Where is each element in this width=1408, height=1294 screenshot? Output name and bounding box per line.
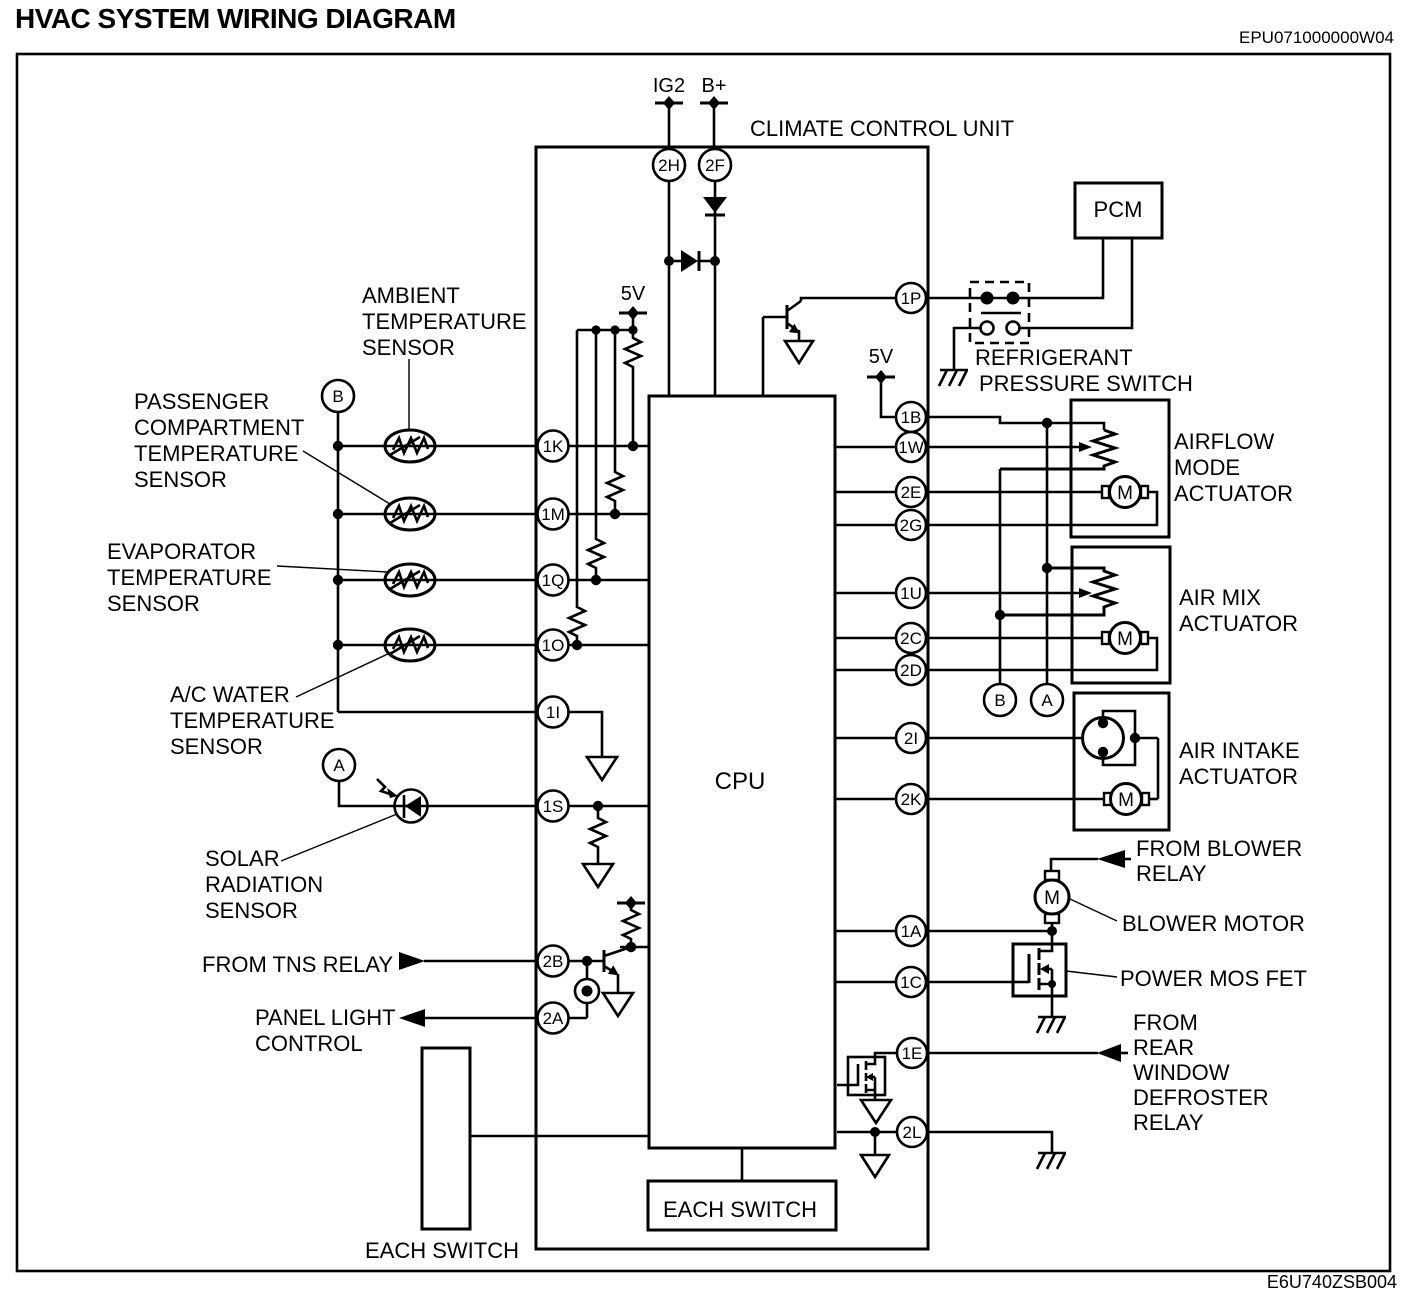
wire B+ to 2F xyxy=(713,103,716,150)
ground (1I return) xyxy=(587,757,617,780)
arrow wiper airflow xyxy=(1079,442,1092,452)
ground (Q1 emitter) xyxy=(785,341,813,363)
connector pin 1M xyxy=(538,499,569,530)
wire 1O row xyxy=(338,644,537,647)
svg-text:TEMPERATURE: TEMPERATURE xyxy=(362,309,527,334)
connector pin 2B xyxy=(538,946,569,977)
svg-text:FROM TNS RELAY: FROM TNS RELAY xyxy=(202,952,393,977)
svg-text:A/C WATER: A/C WATER xyxy=(170,682,290,707)
svg-text:1K: 1K xyxy=(543,437,564,456)
svg-text:RADIATION: RADIATION xyxy=(205,872,323,897)
transistor Q3 power MOS FET xyxy=(1013,944,1066,996)
svg-text:A: A xyxy=(1041,691,1053,710)
lamp panel light indicator xyxy=(568,961,599,1018)
wire left sensor rail xyxy=(337,412,340,712)
svg-text:BLOWER MOTOR: BLOWER MOTOR xyxy=(1122,911,1305,936)
wire 1Q to CPU xyxy=(568,579,649,582)
node bus junction 3 xyxy=(628,325,637,334)
svg-text:REAR: REAR xyxy=(1133,1035,1194,1060)
svg-text:M: M xyxy=(1118,790,1134,811)
node rail junction 1Q xyxy=(333,575,343,585)
diode D2 between IG2 and B+ lines xyxy=(664,250,720,272)
svg-text:2K: 2K xyxy=(901,790,922,809)
wire 1C to MOSFET gate xyxy=(926,981,1013,984)
supply terminal (internal rail) xyxy=(617,896,645,910)
svg-text:PASSENGER: PASSENGER xyxy=(134,389,269,414)
svg-text:A: A xyxy=(333,756,345,775)
motor M1 airflow mode xyxy=(1102,477,1148,508)
callout line evaporator sensor xyxy=(277,566,387,572)
svg-text:EVAPORATOR: EVAPORATOR xyxy=(107,539,256,564)
svg-text:2E: 2E xyxy=(901,483,922,502)
node A-rail top junction xyxy=(1042,418,1052,428)
wire 2D from CPU xyxy=(835,669,896,672)
svg-text:AMBIENT: AMBIENT xyxy=(362,283,460,308)
transistor Q4 rear defroster driver xyxy=(837,1057,885,1100)
callout line solar sensor xyxy=(281,814,397,861)
svg-text:RELAY: RELAY xyxy=(1136,861,1207,886)
PCM module xyxy=(1075,183,1162,238)
wire pressure switch to PCM xyxy=(1013,238,1103,298)
wire CPU to each switch xyxy=(741,1148,744,1181)
resistor R5 on 1S line xyxy=(590,806,606,864)
svg-text:1U: 1U xyxy=(900,584,922,603)
svg-text:1S: 1S xyxy=(543,797,564,816)
wire pressure switch to chassis ground xyxy=(954,328,980,369)
svg-text:E6U740ZSB004: E6U740ZSB004 xyxy=(1267,1272,1397,1292)
svg-text:CONTROL: CONTROL xyxy=(255,1031,363,1056)
thermistor A/C water temperature sensor xyxy=(385,629,435,661)
svg-text:ACTUATOR: ACTUATOR xyxy=(1179,611,1298,636)
wire 1K row xyxy=(338,445,537,448)
label: SOLAR RADIATION SENSOR xyxy=(205,846,323,923)
label: FROM REAR WINDOW DEFROSTER RELAY xyxy=(1133,1010,1269,1135)
svg-text:2H: 2H xyxy=(658,156,680,175)
connector pin 2F xyxy=(699,149,731,181)
wire A to solar sensor xyxy=(339,781,395,806)
connector pin 2G xyxy=(896,510,926,540)
svg-text:SENSOR: SENSOR xyxy=(134,467,227,492)
node A circle (actuator rail A) xyxy=(1031,684,1063,716)
resistor R2 pull-up to 1M xyxy=(607,330,623,519)
chassis ground (2L) xyxy=(1037,1153,1066,1169)
CPU U1 xyxy=(649,396,835,1148)
wire 2E to airflow motor xyxy=(926,491,1102,494)
wire 1B to airflow potentiometer xyxy=(926,417,1104,430)
svg-text:SENSOR: SENSOR xyxy=(362,335,455,360)
each switch block (left) xyxy=(365,1048,519,1263)
label: AMBIENT TEMPERATURE SENSOR xyxy=(362,283,527,360)
svg-text:AIRFLOW: AIRFLOW xyxy=(1174,429,1274,454)
svg-text:1A: 1A xyxy=(901,922,922,941)
svg-text:B+: B+ xyxy=(701,75,726,97)
node 2B junction xyxy=(582,956,592,966)
svg-text:CPU: CPU xyxy=(715,768,766,795)
connector pin 1O xyxy=(538,630,569,661)
connector pin 2K xyxy=(896,784,926,814)
svg-text:MODE: MODE xyxy=(1174,455,1240,480)
connector pin 1A xyxy=(896,916,926,946)
airflow mode actuator box xyxy=(1071,400,1293,537)
arrow to panel light control xyxy=(399,1009,425,1027)
air intake actuator box xyxy=(1074,693,1300,830)
5V supply terminal (right) xyxy=(867,346,896,417)
callout line A/C water sensor xyxy=(296,652,392,697)
wire 1E to rear defroster relay xyxy=(927,1052,1098,1055)
svg-text:REFRIGERANT: REFRIGERANT xyxy=(975,345,1133,370)
callout line blower motor xyxy=(1070,899,1117,921)
wire 2I to intake actuator xyxy=(926,737,1083,740)
ground (1S pull-down) xyxy=(583,864,613,887)
svg-text:PCM: PCM xyxy=(1094,197,1143,222)
connector pin 1C xyxy=(896,967,926,997)
potentiometer airflow mode xyxy=(1000,430,1115,469)
connector pin 2C xyxy=(896,623,926,653)
wire 1Q row xyxy=(338,579,537,582)
wire 2F line down to CPU xyxy=(714,181,717,396)
wire 1W from CPU xyxy=(835,446,896,449)
arrow from blower relay xyxy=(1097,850,1131,868)
wire 2D to air mix motor return xyxy=(926,638,1157,670)
motor blower xyxy=(1035,871,1069,923)
svg-text:EPU071000000W04: EPU071000000W04 xyxy=(1239,28,1394,47)
svg-text:M: M xyxy=(1117,483,1133,504)
svg-text:2G: 2G xyxy=(900,516,923,535)
svg-text:SENSOR: SENSOR xyxy=(107,591,200,616)
svg-text:5V: 5V xyxy=(869,346,894,368)
svg-text:2C: 2C xyxy=(900,629,922,648)
wire 1I to ground xyxy=(568,712,602,757)
svg-text:DEFROSTER: DEFROSTER xyxy=(1133,1085,1269,1110)
svg-text:SENSOR: SENSOR xyxy=(205,898,298,923)
resistor R1 pull-up to 1K xyxy=(625,330,641,451)
wire 2I from CPU xyxy=(835,737,896,740)
wire 2L from CPU xyxy=(837,1127,897,1155)
ground (2L internal) xyxy=(861,1155,889,1177)
connector pin 2I xyxy=(896,723,926,753)
svg-text:CLIMATE CONTROL UNIT: CLIMATE CONTROL UNIT xyxy=(750,116,1014,141)
thermistor evaporator temperature sensor xyxy=(385,564,435,596)
wire 1M to CPU xyxy=(568,513,649,516)
connector pin 1W xyxy=(896,432,926,462)
potentiometer air mix xyxy=(995,563,1115,620)
wire blower relay to motor xyxy=(1051,859,1098,871)
svg-text:ACTUATOR: ACTUATOR xyxy=(1179,764,1298,789)
svg-text:2D: 2D xyxy=(900,661,922,680)
node B (sensor supply rail) xyxy=(322,380,354,412)
node A (solar sensor) xyxy=(323,749,355,781)
svg-text:1W: 1W xyxy=(898,438,924,457)
wire TNS relay to 2B xyxy=(424,960,537,963)
connector pin 1E xyxy=(897,1038,927,1068)
wire solar sensor to 1S xyxy=(427,805,537,808)
svg-text:SENSOR: SENSOR xyxy=(170,734,263,759)
svg-text:2L: 2L xyxy=(903,1123,922,1142)
wire 1U wiper xyxy=(926,592,1080,595)
transistor Q1 (refrigerant pressure signal) xyxy=(763,301,801,396)
label: PANEL LIGHT CONTROL xyxy=(255,1005,396,1056)
vacuum actuator air intake xyxy=(1083,711,1159,799)
svg-text:1O: 1O xyxy=(542,636,565,655)
svg-text:2I: 2I xyxy=(904,729,918,748)
thermistor passenger compartment temperature sensor xyxy=(385,498,435,530)
svg-text:2A: 2A xyxy=(543,1009,564,1028)
svg-text:B: B xyxy=(994,691,1005,710)
wire 2H line down to CPU xyxy=(668,181,671,396)
label: EVAPORATOR TEMPERATURE SENSOR xyxy=(107,539,272,616)
label: REFRIGERANT PRESSURE SWITCH xyxy=(975,345,1193,396)
chassis ground (power MOS FET) xyxy=(1037,1017,1066,1033)
svg-text:5V: 5V xyxy=(621,283,646,305)
wire 1E to Q4 drain xyxy=(875,1053,896,1057)
chassis ground (pressure switch) xyxy=(939,370,968,386)
wire 1I row xyxy=(338,711,537,714)
photodiode solar radiation sensor xyxy=(377,779,428,823)
svg-text:POWER MOS FET: POWER MOS FET xyxy=(1120,966,1307,991)
node rail junction 1O xyxy=(333,640,343,650)
wire each switch to CPU xyxy=(470,1135,649,1138)
wire 1K to CPU xyxy=(568,445,649,448)
wire 2B to transistor base xyxy=(568,960,604,963)
connector pin 2D xyxy=(896,655,926,685)
wire A rail xyxy=(1046,423,1049,684)
connector pin 2E xyxy=(896,477,926,507)
ground (Q4 source) xyxy=(861,1100,891,1123)
connector pin 1B xyxy=(896,402,926,432)
svg-text:FROM: FROM xyxy=(1133,1010,1198,1035)
resistor R4 pull-up to 1O xyxy=(569,330,585,650)
svg-text:2F: 2F xyxy=(705,156,725,175)
wire 1W wiper xyxy=(926,446,1080,449)
node Q2 collector junction xyxy=(626,942,636,952)
wire 2A to panel light control xyxy=(424,1017,537,1020)
motor M3 air intake xyxy=(1104,784,1149,815)
svg-text:M: M xyxy=(1117,629,1133,650)
node rail junction 1M xyxy=(333,509,343,519)
svg-text:1M: 1M xyxy=(541,505,565,524)
wire 2G to airflow motor return xyxy=(926,492,1157,525)
connector pin 2L xyxy=(897,1117,927,1147)
svg-text:COMPARTMENT: COMPARTMENT xyxy=(134,415,304,440)
label: A/C WATER TEMPERATURE SENSOR xyxy=(170,682,335,759)
svg-text:M: M xyxy=(1044,888,1060,909)
svg-text:FROM BLOWER: FROM BLOWER xyxy=(1136,836,1302,861)
arrow from rear window defroster relay xyxy=(1097,1044,1128,1062)
wire 2C to air mix motor xyxy=(926,637,1102,640)
svg-text:AIR INTAKE: AIR INTAKE xyxy=(1179,738,1300,763)
wire 1M row xyxy=(338,513,537,516)
svg-text:EACH SWITCH: EACH SWITCH xyxy=(365,1238,519,1263)
resistor R6 (Q2 collector pull-up) xyxy=(623,905,639,947)
wire IG2 to 2H xyxy=(668,103,671,150)
label: FROM BLOWER RELAY xyxy=(1136,836,1302,886)
connector pin 2H xyxy=(653,149,685,181)
wire pressure switch lower row to PCM xyxy=(1020,238,1132,328)
wire B rail xyxy=(999,469,1002,684)
node 1S junction xyxy=(593,801,603,811)
connector pin 2A xyxy=(538,1003,569,1034)
svg-text:1B: 1B xyxy=(901,408,922,427)
svg-text:EACH SWITCH: EACH SWITCH xyxy=(663,1197,817,1222)
svg-text:TEMPERATURE: TEMPERATURE xyxy=(170,708,335,733)
wire 1P to pressure switch xyxy=(926,297,987,300)
connector pin 1U xyxy=(896,578,926,608)
connector pin 1P xyxy=(896,283,926,313)
arrow from TNS relay xyxy=(399,952,425,970)
node bus junction 2 xyxy=(610,325,619,334)
wire 1U from CPU xyxy=(835,592,896,595)
svg-text:B: B xyxy=(332,387,343,406)
svg-text:PRESSURE SWITCH: PRESSURE SWITCH xyxy=(979,371,1193,396)
wire 2E from CPU xyxy=(835,491,896,494)
connector pin 1I xyxy=(538,697,569,728)
svg-text:2B: 2B xyxy=(543,952,564,971)
svg-text:1E: 1E xyxy=(902,1044,923,1063)
svg-text:1Q: 1Q xyxy=(542,571,565,590)
svg-text:RELAY: RELAY xyxy=(1133,1110,1204,1135)
svg-text:ACTUATOR: ACTUATOR xyxy=(1174,481,1293,506)
svg-text:AIR MIX: AIR MIX xyxy=(1179,585,1261,610)
svg-text:1C: 1C xyxy=(900,973,922,992)
5V supply terminal (left) xyxy=(619,283,647,330)
motor M2 air mix xyxy=(1102,623,1148,654)
connector pin 1S xyxy=(538,791,569,822)
climate control unit box xyxy=(536,116,1014,1249)
power terminal B+ xyxy=(700,75,728,110)
diode D1 on B+ line xyxy=(703,197,727,215)
wire 1S to CPU xyxy=(568,805,649,808)
thermistor ambient temperature sensor xyxy=(385,430,435,462)
transistor Q2 (panel light dimmer) xyxy=(604,947,631,993)
svg-text:PANEL LIGHT: PANEL LIGHT xyxy=(255,1005,396,1030)
wire 2G from CPU xyxy=(835,524,896,527)
node B circle (actuator rail B) xyxy=(984,684,1016,716)
wire 2L to chassis ground xyxy=(927,1132,1052,1153)
wire 5V bus xyxy=(577,329,633,332)
resistor R3 pull-up to 1Q xyxy=(588,330,604,585)
power terminal IG2 xyxy=(653,75,685,110)
svg-text:1I: 1I xyxy=(546,703,560,722)
wire 2K from CPU xyxy=(835,798,896,801)
arrow wiper air mix xyxy=(1079,588,1092,598)
svg-text:IG2: IG2 xyxy=(653,75,685,97)
svg-text:TEMPERATURE: TEMPERATURE xyxy=(134,441,299,466)
callout line ambient sensor xyxy=(408,359,410,429)
svg-text:1P: 1P xyxy=(901,289,922,308)
svg-text:WINDOW: WINDOW xyxy=(1133,1060,1230,1085)
wire 1O to CPU xyxy=(568,644,649,647)
node rail junction 1K xyxy=(333,441,343,451)
svg-text:HVAC SYSTEM WIRING DIAGRAM: HVAC SYSTEM WIRING DIAGRAM xyxy=(15,3,456,34)
air mix actuator box xyxy=(1072,547,1298,683)
callout line passenger sensor xyxy=(303,451,390,504)
wire 1A to blower motor node xyxy=(926,923,1057,944)
wire 1A from CPU xyxy=(835,930,896,933)
each switch block (bottom) xyxy=(648,1181,836,1230)
wire Q2 collector to CPU xyxy=(620,946,649,949)
connector pin 1Q xyxy=(538,565,569,596)
wire 1C from CPU xyxy=(835,981,896,984)
wire MOSFET source to ground xyxy=(1051,996,1054,1017)
label: PASSENGER COMPARTMENT TEMPERATURE SENSOR xyxy=(134,389,304,492)
svg-text:TEMPERATURE: TEMPERATURE xyxy=(107,565,272,590)
ground (Q2 emitter) xyxy=(603,993,633,1016)
callout line power MOS FET xyxy=(1066,971,1117,977)
wire Q1 collector to 1P xyxy=(801,298,896,301)
svg-text:SOLAR: SOLAR xyxy=(205,846,280,871)
connector pin 1K xyxy=(538,431,569,462)
node bus junction 1 xyxy=(591,325,600,334)
wire 2C from CPU xyxy=(835,637,896,640)
refrigerant pressure switch S1 xyxy=(970,282,1029,343)
wire 2K to intake motor xyxy=(926,798,1104,801)
